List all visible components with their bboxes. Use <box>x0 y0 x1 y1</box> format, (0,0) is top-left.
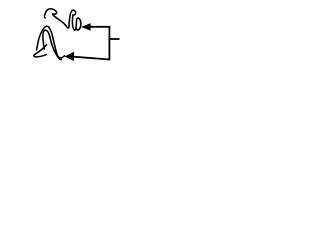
arrow A2 shaft wire (slightly sloped) <box>74 57 110 60</box>
stub wire to label (right) <box>109 38 120 40</box>
arrow A2 head (bottom, points left at S2) <box>64 52 74 61</box>
squiggle S2 (bottom scribble) : outer bell stroke with foot to arrow <box>37 26 65 58</box>
squiggle S2 ribbon fold (bottom-left curled tail) <box>34 45 47 57</box>
arrow A1 head (top, points left at S1) <box>81 23 91 31</box>
arrow A1 shaft wire <box>90 26 110 28</box>
squiggle S1 (top scribble: cane loop, diagonal, double fold, closing hook) <box>45 9 81 30</box>
bracket vertical wire <box>108 26 110 60</box>
squiggle S2 inner stroke (double-drawn bell) <box>43 30 62 59</box>
